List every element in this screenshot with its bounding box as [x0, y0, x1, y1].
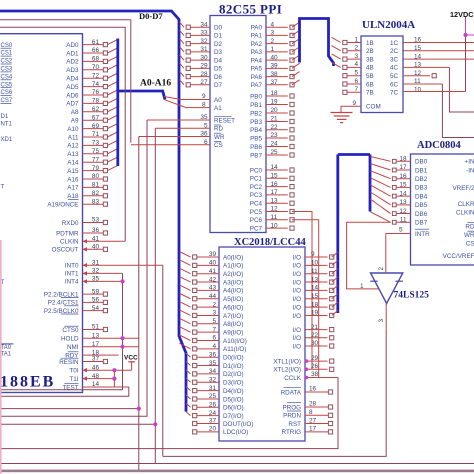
U1 pin 54 P2.5/BCLK0 [44, 305, 108, 315]
U6 pin 26 D6(I/O) [186, 402, 244, 412]
svg-text:A8(I/O): A8(I/O) [223, 321, 243, 328]
U6 pin 44 A5(I/O) [179, 293, 243, 303]
U2 pin 22 PB4 [250, 124, 294, 134]
U2 pin 24 PB6 [250, 141, 294, 151]
U2 pin 39 PA5 [251, 63, 300, 73]
U2 pin 23 PB5 [250, 132, 294, 142]
svg-text:DB6: DB6 [415, 211, 428, 218]
U1 pin 81 A17 [67, 182, 107, 192]
svg-text:PC1: PC1 [250, 176, 263, 183]
svg-text:DB4: DB4 [415, 193, 428, 200]
U1 pin label T lower [1, 280, 5, 286]
svg-text:A12: A12 [67, 143, 79, 150]
U2 pin 21 PB3 [250, 116, 294, 126]
U3 pin 14 3C [390, 53, 422, 63]
svg-text:LDC(I/O): LDC(I/O) [223, 429, 248, 436]
U4 pin label VREF/2 [452, 185, 474, 192]
U1 pin label TA1 [1, 351, 12, 357]
adc U4 ADC0804 body [411, 140, 474, 265]
U2 pin 35 RESET [147, 114, 235, 124]
U6 pin 5 A8(I/O) [179, 318, 243, 328]
svg-text:D3(I/O): D3(I/O) [223, 380, 244, 387]
U1 pin 36 PDTMR [56, 227, 107, 237]
U3 pin 2 2B [332, 45, 374, 56]
wire U3 6C output [403, 84, 474, 138]
svg-text:9: 9 [202, 93, 206, 100]
U1 pin 71 A11 [68, 131, 118, 141]
U6 pin 17 RTRIG [282, 426, 333, 437]
svg-text:WR: WR [214, 134, 225, 141]
U3 pin 9 COM [341, 100, 381, 112]
U6 pin 35 D1(I/O) [186, 360, 244, 370]
svg-text:DOUT(I/O): DOUT(I/O) [223, 421, 253, 428]
darlington array U3 ULN2004A body [361, 19, 415, 113]
U1 pin 73 A12 [67, 140, 118, 150]
buffer U5 74LS125 triangle [370, 273, 429, 304]
U2 pin 16 PC2 [250, 181, 294, 191]
svg-text:RDATA: RDATA [281, 389, 302, 396]
svg-text:PB1: PB1 [250, 102, 262, 109]
svg-text:188EB: 188EB [0, 374, 55, 391]
U2 pin 3 PA1 [251, 30, 300, 40]
wire PC5 to XTL2 net [292, 212, 312, 370]
U6 pin 7 A9(I/O) [179, 326, 243, 336]
U6 pin 24 D7(I/O) [186, 410, 244, 420]
svg-text:ADC0804: ADC0804 [417, 140, 461, 151]
svg-text:A5(I/O): A5(I/O) [223, 296, 243, 303]
U1 pin label CS2 [1, 59, 13, 65]
svg-text:A4(I/O): A4(I/O) [223, 288, 243, 295]
U6 pin 14 I/O [293, 285, 338, 295]
U6 pin 13 I/O [293, 276, 338, 286]
U3 pin 7 7B [343, 86, 374, 97]
U6 pin 37 DOUT(I/O) [193, 417, 254, 428]
U2 pin 25 PB7 [250, 149, 294, 159]
svg-text:PA0: PA0 [251, 25, 263, 32]
U1 pin P2.5/BCLK0 overbar [61, 313, 79, 315]
U6 pin 26 XTL2(I/O) [273, 363, 333, 374]
U6 pin 20 LDC(I/O) [193, 426, 249, 437]
U1 pin 75 A13 [67, 148, 118, 158]
peripheral interface U2 82C55 PPI body [210, 2, 282, 233]
svg-text:A8: A8 [71, 109, 79, 116]
U3 pin 1 1B [332, 36, 374, 47]
U3 pin 13 4C [390, 62, 422, 72]
U1 pin label TA0 [1, 344, 14, 351]
U1 pin 41 CLKIN [60, 236, 125, 246]
svg-text:PRDN: PRDN [283, 413, 301, 420]
U1 pin P2.2/BCLK1 overbar [61, 297, 79, 299]
svg-text:D4(I/O): D4(I/O) [223, 388, 244, 395]
svg-text:AD2: AD2 [66, 59, 79, 66]
U2 pin 33 D1 [180, 30, 223, 40]
U1 pin 77 A14 [67, 156, 118, 166]
svg-text:XTL1(I/O): XTL1(I/O) [273, 358, 301, 365]
svg-text:D6(I/O): D6(I/O) [223, 405, 244, 412]
U4 pin 5 INTR [386, 226, 430, 238]
svg-text:PB7: PB7 [250, 152, 262, 159]
svg-text:DB7: DB7 [415, 220, 428, 227]
svg-text:D7: D7 [214, 82, 223, 89]
U2 pin 20 PB2 [250, 107, 294, 117]
U6 pin 27 RST [288, 417, 332, 428]
U2 pin 32 D2 [180, 38, 223, 48]
svg-text:DB1: DB1 [415, 167, 428, 174]
svg-text:A1(I/O): A1(I/O) [223, 263, 243, 270]
fpga U6 XC2018/LCC44 body [219, 237, 307, 441]
svg-text:A15: A15 [67, 168, 79, 175]
wire T1I to TEST [113, 370, 115, 387]
svg-text:8: 8 [309, 409, 313, 416]
U1 pin label CS1 [1, 51, 13, 57]
U4 pin label -IN [466, 167, 474, 174]
svg-text:3B: 3B [366, 56, 374, 63]
U1 pin label D1 [1, 114, 9, 120]
svg-text:TA0: TA0 [1, 345, 12, 351]
svg-text:VREF/2: VREF/2 [452, 185, 474, 192]
U2 pin 4 PA0 [251, 21, 300, 31]
svg-text:INTR: INTR [415, 231, 430, 238]
wire vertical net x147 RESET [0, 120, 147, 416]
bus label D0-D7 [139, 11, 163, 21]
svg-text:A10(I/O): A10(I/O) [223, 338, 247, 345]
U6 pin 38 CCLK [284, 371, 338, 382]
U6 pin 18 I/O [293, 301, 338, 311]
U6 pin 22 I/O [293, 332, 334, 342]
U1 pin label CS7 [1, 98, 13, 104]
power label 12VDC [450, 10, 474, 20]
U1 pin 40 OSCOUT [52, 244, 108, 254]
U4 pin 15 DB3 [370, 178, 427, 192]
U2 pin 8 A1 [165, 100, 222, 112]
U1 pin 18 RDY [65, 349, 118, 359]
svg-text:PC5: PC5 [250, 209, 263, 216]
U6 pin 9 I/O [293, 251, 338, 261]
U1 pin 46 T0I [69, 364, 131, 374]
U4 pin 18 DB0 [370, 156, 427, 166]
svg-text:A0-A16: A0-A16 [140, 79, 171, 89]
U6 pin 4 A11(I/O) [179, 343, 246, 353]
U1 pin 37 RESIN [59, 356, 107, 366]
svg-text:RD: RD [214, 126, 224, 133]
svg-text:CS: CS [214, 142, 223, 149]
U3 pin 10 7C [390, 87, 422, 97]
U4 pin label CS [466, 240, 474, 247]
U4 pin 12 DB6 [370, 199, 427, 218]
U2 pin 15 PC1 [250, 173, 294, 183]
U6 pin 2 A6(I/O) [179, 301, 243, 311]
U6 pin 11 I/O [293, 268, 338, 278]
wire U3 7C output [403, 91, 466, 93]
svg-text:AD0: AD0 [66, 42, 79, 49]
U6 pin 25 D5(I/O) [186, 393, 244, 403]
U1 pin label CS3 [1, 67, 13, 73]
svg-text:T: T [1, 185, 5, 191]
U2 pin 14 PC0 [250, 164, 294, 174]
U4 pin label VCC/VREF [443, 253, 474, 260]
svg-text:WR: WR [464, 232, 474, 239]
wire DB7 to buffer input [347, 222, 391, 289]
U6 pin 28 PROG [282, 401, 332, 412]
U1 pin 79 A15 [67, 165, 118, 175]
svg-text:PA1: PA1 [251, 33, 263, 40]
bus DB0-DB7 to ADC0804 [338, 155, 370, 314]
U1 pin 59 P2.2/BCLK1 [44, 288, 108, 298]
svg-text:PA5: PA5 [251, 66, 263, 73]
svg-text:A16: A16 [67, 176, 79, 183]
svg-text:A10: A10 [67, 126, 79, 133]
svg-text:TA1: TA1 [1, 351, 12, 357]
scan border bottom [0, 470, 474, 473]
U3 pin 15 2C [390, 45, 422, 55]
wire U3 3C output [403, 58, 474, 60]
svg-text:A14: A14 [67, 160, 79, 167]
svg-text:RST: RST [288, 421, 301, 428]
U6 pin 10 I/O [293, 260, 338, 270]
junction [112, 368, 116, 372]
svg-text:RXD0: RXD0 [62, 220, 79, 227]
svg-text:PB2: PB2 [250, 110, 262, 117]
svg-text:DB0: DB0 [415, 159, 428, 166]
svg-text:I/O: I/O [293, 263, 301, 270]
svg-text:INT4: INT4 [65, 279, 79, 286]
U3 pin 4 4B [332, 61, 374, 72]
svg-text:4B: 4B [366, 65, 374, 72]
svg-text:7B: 7B [366, 90, 374, 97]
wire vertical net x173 INT1 [0, 273, 123, 389]
svg-text:D0(I/O): D0(I/O) [223, 355, 244, 362]
svg-text:A2(I/O): A2(I/O) [223, 271, 243, 278]
svg-text:I/O: I/O [293, 288, 301, 295]
U4 pin 13 DB5 [370, 192, 427, 209]
svg-text:I/O: I/O [293, 343, 301, 350]
U3 pin 6 6B [343, 78, 374, 89]
U6 pin 30 I/O [293, 340, 334, 350]
svg-text:PB3: PB3 [250, 119, 262, 126]
U2 pin 9 A0 [164, 93, 222, 104]
U1 pin 69 A10 [67, 123, 118, 133]
svg-text:D2: D2 [214, 41, 223, 48]
U1 pin 31 INT0 [65, 259, 163, 269]
U1 pin label T upper [1, 185, 5, 191]
U2 pin 31 D3 [180, 46, 223, 56]
U1 pin 17 NMI [67, 341, 139, 351]
U1 pin 83 A19/ONCE [47, 198, 107, 208]
U3 pin 3 3B [332, 53, 374, 64]
svg-text:PC7: PC7 [250, 225, 263, 232]
svg-text:+IN: +IN [465, 159, 474, 166]
U1 pin 48 T1I [69, 373, 114, 383]
U1 pin label CS4 [1, 74, 13, 80]
U5 pin 3 output wire [163, 304, 386, 457]
svg-text:1C: 1C [390, 40, 399, 47]
svg-text:I/O: I/O [293, 327, 301, 334]
U1 pin 32 INT1 [65, 268, 123, 278]
svg-text:INT0: INT0 [65, 263, 79, 270]
U1 pin 66 AD1 [66, 47, 118, 57]
U1 pin 68 AD2 [66, 56, 118, 66]
U6 pin 15 I/O [293, 293, 338, 303]
U2 pin 6 CS [131, 139, 223, 149]
U2 pin 29 D5 [180, 63, 223, 73]
svg-text:PB4: PB4 [250, 127, 262, 134]
U1 pin P2.4/CTS1 overbar [64, 305, 78, 307]
svg-text:PC6: PC6 [250, 217, 263, 224]
U1 pin label XD1 [1, 137, 13, 143]
wire U3 2C output [403, 50, 474, 52]
svg-text:I/O: I/O [293, 271, 301, 278]
svg-text:A7(I/O): A7(I/O) [223, 313, 243, 320]
U1 pin 72 AD4 [66, 72, 118, 82]
svg-text:PA7: PA7 [251, 82, 263, 89]
svg-text:NMI: NMI [67, 344, 79, 351]
svg-text:A13: A13 [67, 151, 79, 158]
svg-text:82C55 PPI: 82C55 PPI [219, 2, 282, 17]
wire U3 5C output stub [403, 74, 436, 78]
U2 pin 5 RD [155, 123, 223, 133]
svg-text:D1(I/O): D1(I/O) [223, 363, 244, 370]
scan border left strip [0, 240, 2, 474]
U3 pin 11 6C [390, 78, 421, 88]
junction [120, 279, 124, 283]
U3 pin 12 5C [390, 70, 422, 80]
bus A0-A16 vertical at left chip [118, 39, 165, 167]
svg-text:I/O: I/O [293, 313, 301, 320]
U4 pin label WR [464, 231, 474, 239]
svg-text:VCC/VREF: VCC/VREF [443, 253, 474, 260]
U1 pin 70 AD3 [66, 64, 118, 74]
svg-text:D1: D1 [214, 33, 223, 40]
svg-text:D7(I/O): D7(I/O) [223, 413, 244, 420]
U6 pin 36 D0(I/O) [186, 351, 244, 361]
svg-text:A0: A0 [214, 97, 222, 104]
svg-text:CS: CS [466, 240, 474, 247]
svg-text:74LS125: 74LS125 [394, 291, 430, 301]
svg-text:D3: D3 [214, 49, 223, 56]
svg-text:2B: 2B [366, 48, 374, 55]
U2 pin 11 PC6 [250, 214, 294, 224]
power symbol VCC [124, 355, 138, 371]
U2 pin 18 PB0 [250, 90, 294, 100]
svg-text:6C: 6C [390, 81, 399, 88]
svg-text:CTS0: CTS0 [62, 327, 79, 334]
U2 pin 1 PA3 [251, 46, 300, 56]
svg-text:1B: 1B [366, 40, 374, 47]
svg-text:6B: 6B [366, 81, 374, 88]
U6 pin 42 A3(I/O) [179, 276, 243, 286]
svg-text:5: 5 [399, 226, 403, 233]
U6 pin 32 D3(I/O) [186, 376, 244, 386]
svg-text:12VDC: 12VDC [450, 10, 474, 19]
wire vertical net x155 RD [0, 128, 155, 463]
svg-text:3C: 3C [390, 56, 399, 63]
wire vertical net x131 CS [130, 20, 132, 143]
svg-text:28: 28 [309, 401, 317, 408]
svg-text:-IN: -IN [466, 167, 474, 174]
svg-text:5B: 5B [366, 73, 374, 80]
bus D0-D7 horizontal top [0, 11, 186, 412]
U1 pin 53 RXD0 [62, 217, 108, 227]
svg-text:4C: 4C [390, 65, 399, 72]
svg-text:CLKIN: CLKIN [456, 210, 474, 217]
U3 pin 16 1C [390, 37, 422, 47]
svg-text:16: 16 [309, 386, 317, 393]
U6 pin 40 A1(I/O) [179, 260, 243, 270]
wire vertical net x164 INT0 [162, 265, 164, 456]
svg-text:DB3: DB3 [415, 185, 428, 192]
svg-text:A11: A11 [68, 134, 79, 141]
U6 pin 41 A2(I/O) [179, 268, 243, 278]
svg-text:AD4: AD4 [66, 76, 79, 83]
U1 pin 61 AD0 [66, 39, 118, 49]
U6 pin 3 A7(I/O) [179, 310, 243, 320]
junction [112, 377, 116, 381]
junction [137, 407, 141, 411]
svg-text:PC4: PC4 [250, 201, 263, 208]
U4 pin label RD [465, 223, 474, 231]
U2 pin 36 WR [139, 131, 225, 141]
U1 pin 56 P2.4/CTS1 [48, 297, 108, 307]
U1 pin 13 HOLD [61, 332, 139, 342]
svg-text:RESIN: RESIN [59, 359, 79, 366]
svg-text:PA2: PA2 [251, 41, 263, 48]
wire TEST net to left edge [0, 387, 129, 396]
svg-text:XC2018/LCC44: XC2018/LCC44 [234, 237, 307, 248]
svg-text:PROG: PROG [282, 404, 301, 411]
U4 pin 16 DB2 [370, 171, 427, 183]
svg-text:I/O: I/O [293, 335, 301, 342]
svg-text:D6: D6 [214, 74, 223, 81]
svg-text:DB2: DB2 [415, 176, 428, 183]
U4 pin label CLKR [458, 201, 474, 208]
svg-text:PB0: PB0 [250, 93, 262, 100]
svg-text:7C: 7C [390, 90, 399, 97]
U2 pin 28 D6 [180, 71, 223, 81]
svg-text:I/O: I/O [293, 279, 301, 286]
junction [120, 345, 124, 349]
svg-text:A6(I/O): A6(I/O) [223, 304, 243, 311]
svg-text:A0(I/O): A0(I/O) [223, 254, 243, 261]
U4 pin 11 DB7 [370, 212, 427, 227]
U5 pin 1 label [360, 284, 364, 290]
U6 pin 16 RDATA [281, 386, 333, 397]
svg-text:INT1: INT1 [65, 271, 79, 278]
U6 pin 34 D2(I/O) [186, 368, 244, 378]
wire U3 1C output [403, 42, 474, 44]
svg-text:D5: D5 [214, 66, 223, 73]
U6 pin 29 XTL1(I/O) [273, 355, 333, 366]
U1 pin label CS5 [1, 82, 13, 88]
svg-text:COM: COM [366, 104, 381, 111]
svg-text:VCC: VCC [124, 355, 138, 362]
svg-text:D2(I/O): D2(I/O) [223, 371, 244, 378]
bus label A0-A16 [140, 79, 171, 89]
junction 12VDC [463, 33, 467, 37]
U1 pin 78 AD7 [66, 98, 118, 108]
U1 pin label CS0 [1, 43, 13, 49]
U2 pin 13 PC4 [250, 197, 294, 207]
svg-text:AD3: AD3 [66, 67, 79, 74]
ground symbol at U3 COM [331, 113, 353, 123]
svg-text:PB5: PB5 [250, 135, 262, 142]
svg-text:10: 10 [414, 87, 422, 94]
bus PA0-PA7 to ULN2004A [300, 19, 334, 67]
wire U3 4C output [403, 67, 474, 112]
wire net top2 [0, 27, 125, 241]
U1 pin label NT1 [1, 121, 13, 127]
U1 pin 62 A8 [71, 106, 118, 116]
svg-text:PB6: PB6 [250, 144, 262, 151]
